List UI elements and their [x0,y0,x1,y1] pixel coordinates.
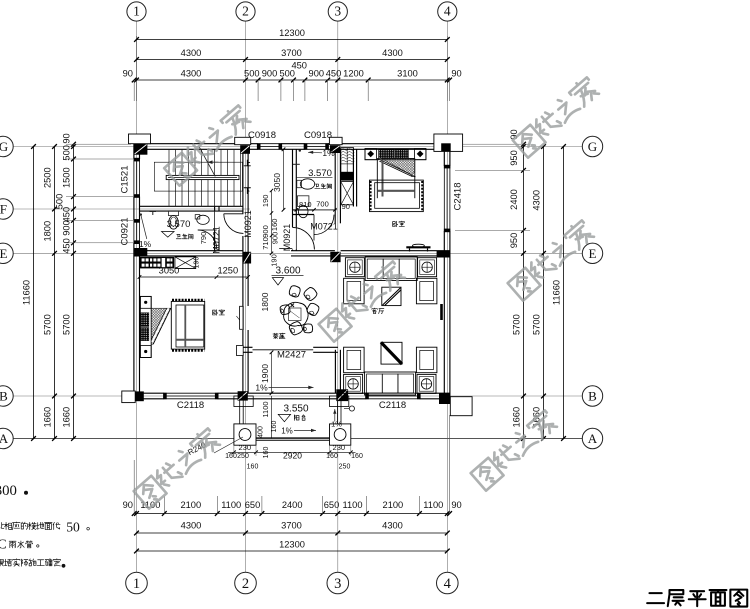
svg-text:500: 500 [244,69,260,79]
balcony pedestal right [330,424,351,445]
window C0918 left in G wall [258,143,281,145]
bed2 quilt hatch [382,159,415,176]
svg-text:2100: 2100 [180,500,201,510]
column 4/E [437,251,450,258]
svg-text:1900: 1900 [260,364,270,383]
living sofa bottom row left table [344,374,363,393]
svg-text:G: G [588,139,597,154]
wall shaft east [352,149,354,206]
svg-text:1%: 1% [139,239,152,249]
bedroom2 label [393,221,398,226]
living room label [372,308,377,313]
svg-text:C: C [0,536,7,551]
svg-text:900: 900 [271,232,280,245]
axis line 1 [136,22,138,573]
door M0721 bathroom1 [198,230,217,249]
wall E row left (below bath) [134,250,243,252]
living armchair NE [416,278,437,304]
svg-text:90: 90 [451,500,461,510]
wall M2427 row (hall/balcony) [243,346,253,348]
tea area label [273,333,278,338]
bed2 body [376,158,378,198]
living sofa top 3-seat [365,257,417,281]
watermark 3 [507,219,596,301]
svg-text:4300: 4300 [181,521,202,531]
wall G row (top exterior) [134,143,258,145]
svg-text:230: 230 [333,443,346,452]
grid bubble 4 top [438,2,457,21]
pilaster box 3/G [329,137,342,144]
svg-text:160: 160 [271,421,278,433]
svg-text:90: 90 [342,202,350,211]
column 1/G [134,144,148,155]
wall balcony east side upper [334,350,336,393]
bedroom2 console table [406,246,430,248]
svg-text:1800: 1800 [43,221,53,242]
svg-text:950: 950 [509,233,519,249]
svg-text:1%: 1% [322,148,335,158]
svg-text:1%: 1% [331,420,342,429]
pilaster box 2/G [235,137,251,144]
svg-text:1660: 1660 [62,407,72,428]
wall E row mid (vestibule) [291,250,335,252]
svg-text:3700: 3700 [281,48,302,58]
svg-text:1: 1 [133,4,140,19]
stair treads [168,149,170,206]
svg-text:900: 900 [261,225,270,238]
svg-text:5700: 5700 [62,314,72,335]
pilaster box 1/B corner [122,391,135,403]
rain pipe right [349,406,354,411]
grid bubble 2 top [236,2,255,21]
svg-text:3700: 3700 [281,521,302,531]
grid bubble 1 bottom [126,572,148,594]
svg-text:1800: 1800 [260,292,270,311]
bathroom1 label weishengjian [176,234,181,238]
stair label down [244,188,250,194]
window C1521 in left wall [133,159,135,197]
svg-text:2500: 2500 [43,167,53,188]
svg-text:2920: 2920 [283,451,302,461]
bathroom1 toilet [169,211,179,216]
svg-text:160: 160 [263,447,270,459]
wall bathroom1 partition [214,206,216,210]
bedroom1 door leaf [240,306,243,329]
column 3/G [330,145,340,153]
svg-text:160: 160 [326,453,338,460]
svg-text:M0721: M0721 [310,221,338,231]
tea table [284,302,309,326]
svg-text:11660: 11660 [552,280,562,305]
grid bubble B right [582,386,602,406]
column 4/G [441,143,451,151]
right dim col 4300/5700/1660 [543,147,545,439]
living sofa bottom right table [417,374,436,393]
svg-text:2400: 2400 [509,189,519,210]
svg-text:190: 190 [261,195,270,208]
svg-text:160: 160 [270,219,279,232]
bathroom2 label [315,184,320,188]
svg-text:50: 50 [66,519,80,534]
R240 leader [214,437,243,453]
bottom dim row fine [134,513,449,515]
svg-text:1100: 1100 [343,500,363,510]
svg-text:160: 160 [351,453,363,460]
svg-text:1: 1 [133,576,140,592]
window C0921 in left wall [133,220,135,243]
svg-text:M0721: M0721 [212,226,222,254]
tea chairs (blobs) [289,285,301,298]
axis line B [13,395,582,397]
column 2/B [238,391,248,400]
svg-text:C2118: C2118 [379,400,406,411]
svg-text:90: 90 [123,69,133,79]
watermark 2 [512,76,601,158]
svg-text:250: 250 [339,464,351,471]
svg-text:950: 950 [509,150,519,166]
svg-text:3050: 3050 [272,173,282,192]
axis line E [13,252,582,254]
svg-text:1%: 1% [281,427,293,436]
svg-text:1100: 1100 [221,500,241,510]
svg-text:710: 710 [261,237,270,250]
column 2/E [243,252,251,264]
left dim col 2500/1800/5700/1660 [54,147,56,439]
svg-text:C0921: C0921 [120,218,131,246]
svg-text:810: 810 [299,200,312,209]
svg-text:A: A [588,431,598,446]
axis line A [13,438,582,440]
axis line F [13,208,250,210]
bed1 headboard [140,296,151,357]
left dim col 11660 [33,147,35,439]
svg-text:3: 3 [334,4,341,19]
svg-text:190: 190 [194,257,201,269]
column 1/B [134,391,144,401]
axis line 3 [337,22,339,573]
bathroom2 floor drain [293,163,300,165]
svg-text:C1521: C1521 [120,166,131,194]
hall dims 190/900/710 [271,191,273,254]
svg-text:5700: 5700 [532,314,542,335]
svg-text:C2118: C2118 [177,400,204,411]
closet X-box [175,257,196,269]
svg-text:3100: 3100 [397,69,418,79]
svg-text:5700: 5700 [512,314,522,335]
svg-text:G: G [0,139,8,154]
grid bubble A left [0,428,13,448]
svg-text:12300: 12300 [279,540,305,550]
grid bubble 3 bottom [327,572,349,594]
svg-text:11660: 11660 [22,280,32,305]
svg-text:160: 160 [225,453,237,460]
living table diagonal-band [382,287,401,305]
svg-text:4: 4 [444,4,451,19]
door M0921 vestibule [292,227,314,249]
svg-text:2100: 2100 [383,500,404,510]
axis line 2 [245,22,247,573]
wall F row (stair/bath separator) [140,205,243,207]
wall B row (bottom exterior) [134,392,164,394]
pilaster box M2427 west end [237,345,244,355]
svg-text:450: 450 [291,60,307,70]
column 3/B [336,389,348,401]
bottom dim row 12300 [137,550,448,552]
svg-text:700: 700 [316,200,329,209]
svg-text:500: 500 [62,145,72,161]
watermark 1 [163,104,252,186]
right dim col fine [523,144,525,438]
top dim row fine [134,79,449,81]
balcony front edge [256,437,330,439]
svg-text:450: 450 [62,207,72,223]
top dim row 4300/3700/4300 [137,59,448,61]
svg-text:900: 900 [262,69,278,79]
svg-text:160: 160 [247,464,259,471]
svg-text:3: 3 [334,576,341,592]
grid bubble E left [0,243,13,263]
grid bubble G left [0,136,13,156]
living armchair SW [344,347,365,373]
balcony rail left [239,399,241,426]
bedroom1 label [213,310,218,315]
svg-text:90: 90 [62,133,72,143]
pilaster box 4/G corner [434,134,463,151]
svg-text:C0918: C0918 [248,130,276,141]
living armchair SE [416,347,437,373]
svg-text:400: 400 [258,426,265,438]
shaft X-box [341,182,354,205]
svg-text:650: 650 [245,500,261,510]
column 3/E [330,252,340,262]
wall bathroom2 south [293,209,315,211]
bathroom2 sink [297,180,302,187]
title erceng pingmiantu [647,593,664,603]
svg-text:3050: 3050 [159,266,180,276]
balcony ext lines [233,445,235,456]
svg-text:E: E [589,246,597,261]
pilaster box 4/B corner [450,397,472,416]
svg-text:3.550: 3.550 [283,403,308,414]
window C2118 right in B wall [366,392,419,394]
svg-text:B: B [0,389,8,404]
svg-text:1660: 1660 [512,407,522,428]
wall bathroom2 west [292,149,294,227]
bedroom1 dim 3050/1250 [140,276,249,278]
svg-text:4300: 4300 [382,48,403,58]
door M0921 hall [224,214,244,234]
svg-text:2: 2 [242,576,249,592]
grid bubble A right [582,428,602,448]
window C2118 left in B wall [164,392,217,394]
note line 4 [0,559,3,566]
left dim col fine [73,144,75,438]
bed1 body [172,299,204,301]
svg-text:2: 2 [242,4,249,19]
column 1/E [135,248,148,256]
svg-text:90: 90 [123,500,133,510]
living sofa top row right table [418,258,437,277]
grid bubble G right [582,136,602,156]
svg-text:1100: 1100 [261,401,270,417]
svg-text:C2418: C2418 [453,183,464,211]
svg-text:4300: 4300 [382,521,403,531]
svg-text:790: 790 [199,232,208,245]
svg-text:1660: 1660 [43,407,53,428]
shaft hatched [341,148,354,181]
svg-text:M2427: M2427 [277,350,306,361]
bathroom2 toilet [298,196,309,207]
wall axis-1 left exterior [133,144,135,159]
wall axis-2 interior [242,149,244,213]
right dim col 11660 [563,147,565,439]
svg-text:300: 300 [0,483,17,499]
wall axis-3 (bath2 east / shaft west) [334,149,336,223]
living armchair NW [344,278,365,304]
stair label up [244,160,250,166]
wall E row right (bedroom south) [341,250,451,252]
window C0918 right in G wall [305,143,328,145]
axis line 4 [446,22,448,573]
bed2 fold band [379,160,412,176]
grid bubble 4 bottom [437,572,459,594]
svg-text:650: 650 [324,500,340,510]
grid bubble E right [582,243,602,263]
column 2/G [240,145,250,154]
closet hatched [140,257,174,269]
svg-text:3.570: 3.570 [167,219,191,230]
watermark 6 [470,409,559,491]
bed2 quilt edge [382,160,384,197]
watermark 5 [133,427,222,509]
svg-text:1200: 1200 [343,69,364,79]
svg-text:C0918: C0918 [304,130,332,141]
living sofa top row left table [345,258,364,277]
bed1 fold [152,308,169,342]
svg-text:900: 900 [309,69,325,79]
grid bubble F left [0,199,13,219]
svg-text:3.600: 3.600 [275,265,300,276]
balcony pedestal left [234,424,256,445]
balcony top box left [234,396,253,407]
grid bubble B left [0,386,13,406]
note line 2 [0,522,4,528]
stair handrail [166,175,239,179]
axis line G [13,146,582,148]
svg-text:250: 250 [237,453,249,460]
svg-text:2400: 2400 [282,500,303,510]
svg-text:12300: 12300 [279,28,305,38]
svg-text:F: F [0,202,7,217]
door mark east wall [440,304,443,320]
svg-text:450: 450 [62,238,72,254]
svg-text:450: 450 [326,69,342,79]
bed2 headboard [365,149,426,160]
bed1 quilt hatch [151,308,171,344]
column 4/B [439,394,450,405]
svg-text:4: 4 [444,576,452,592]
svg-text:5700: 5700 [43,314,53,335]
door M0721 bathroom2 [314,215,334,235]
bed1 pillows [141,313,149,327]
bed2 pillows [379,149,394,158]
svg-text:4300: 4300 [181,69,202,79]
svg-text:230: 230 [239,443,252,452]
balcony label [294,415,299,421]
stair arrow [199,147,215,176]
balcony top box right [330,396,349,407]
svg-text:E: E [0,246,7,261]
svg-text:B: B [588,389,597,404]
svg-text:A: A [0,431,9,446]
svg-text:1%: 1% [255,383,268,393]
grid bubble 1 top [127,2,146,21]
grid bubble 2 bottom [235,572,257,594]
svg-text:900: 900 [62,220,72,236]
living table diagonal [381,342,402,364]
bed2 bench U [369,181,371,211]
svg-text:M0921: M0921 [282,224,292,252]
svg-text:1100: 1100 [423,500,443,510]
bottom dim row 4300/3700/4300 [137,532,448,534]
svg-text:1250: 1250 [217,266,238,276]
svg-text:M0921: M0921 [243,210,253,238]
svg-text:4300: 4300 [181,48,202,58]
grid bubble 3 top [328,2,347,21]
pilaster box 1/G [129,134,151,144]
balcony rail right [337,399,339,426]
watermark 4 [318,260,407,342]
stair void outline [154,162,242,191]
top dim row 12300 [137,39,448,41]
window C2418 in right wall [443,166,445,231]
svg-text:90: 90 [451,69,461,79]
living sofa bottom 3-seat [365,372,416,395]
bathroom1 floor drain [150,211,157,213]
wall axis-4 right exterior [443,144,445,166]
svg-text:4300: 4300 [532,190,542,211]
svg-text:1500: 1500 [62,167,72,188]
bathroom1 sink [195,215,200,219]
